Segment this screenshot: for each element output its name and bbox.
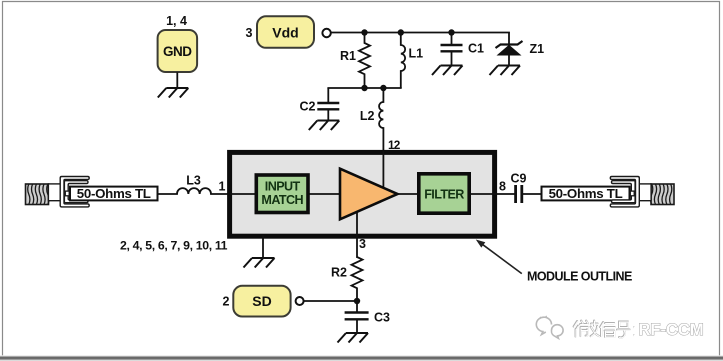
node junction dot R2/C3 — [354, 298, 360, 304]
wire pin 8 to C9 — [495, 193, 514, 195]
svg-text:L3: L3 — [186, 174, 201, 188]
wire pin 3 from amplifier down — [356, 212, 358, 257]
svg-text:FILTER: FILTER — [424, 187, 464, 201]
ground chassis under Z1 — [490, 66, 521, 76]
capacitor C9 — [516, 185, 522, 203]
svg-text:50-Ohms TL: 50-Ohms TL — [77, 186, 151, 201]
ground chassis under GND box — [158, 88, 189, 98]
ground chassis under C2 — [309, 121, 340, 131]
svg-text:50-Ohms TL: 50-Ohms TL — [549, 186, 623, 201]
SD terminal box — [233, 286, 290, 317]
resistor R2 — [352, 257, 363, 301]
capacitor C3 — [345, 301, 369, 333]
wire FILTER to pin 8 — [471, 193, 495, 195]
svg-text:R1: R1 — [340, 49, 356, 63]
Vdd terminal box — [257, 16, 314, 48]
wire module input to INPUT MATCH — [231, 193, 255, 195]
bottom shadow bar — [0, 355, 723, 361]
zener diode Z1 — [496, 33, 523, 66]
svg-text:C1: C1 — [468, 42, 484, 56]
ground chassis under C3 — [338, 333, 369, 343]
svg-text:8: 8 — [499, 180, 506, 194]
svg-text:1, 4: 1, 4 — [166, 14, 187, 28]
wire C9 to right TL — [523, 193, 541, 195]
svg-text:R2: R2 — [331, 266, 347, 280]
svg-text:Z1: Z1 — [530, 42, 545, 56]
svg-text:RF-CCM: RF-CCM — [639, 321, 704, 339]
ground chassis under module — [244, 258, 275, 268]
svg-text:GND: GND — [163, 44, 192, 59]
wire module ground stub — [262, 236, 264, 258]
op-amp amplifier triangle — [340, 169, 398, 220]
INPUT MATCH block — [256, 175, 308, 213]
left SMA connector — [26, 177, 90, 207]
wire amplifier to FILTER — [398, 193, 418, 195]
svg-text:Vdd: Vdd — [272, 25, 298, 41]
svg-text:MODULE OUTLINE: MODULE OUTLINE — [527, 270, 632, 284]
svg-text:C9: C9 — [511, 172, 527, 186]
svg-text:SD: SD — [252, 293, 271, 309]
50-Ohms TL right box — [542, 187, 630, 201]
capacitor C2 — [317, 88, 339, 121]
svg-text:C3: C3 — [374, 311, 390, 325]
module outline block — [230, 152, 495, 236]
module outline callout arrow — [483, 245, 522, 274]
wire pin 12 into module — [382, 152, 384, 190]
svg-text:L1: L1 — [409, 47, 424, 61]
watermark wechat logo — [536, 316, 563, 338]
Vdd terminal circle — [322, 29, 330, 37]
wire GND stem — [176, 72, 178, 88]
SD terminal circle — [296, 297, 304, 305]
svg-text:MATCH: MATCH — [261, 193, 303, 207]
svg-text:C2: C2 — [300, 100, 316, 114]
wire SD to R2 node — [304, 300, 357, 302]
svg-text:1: 1 — [219, 180, 226, 194]
svg-text:2: 2 — [223, 295, 230, 309]
inductor L1 — [401, 33, 405, 89]
inductor L3 — [177, 188, 211, 194]
svg-text:12: 12 — [388, 138, 401, 152]
svg-text:3: 3 — [246, 26, 253, 40]
watermark text 微信号: RF-CCM — [574, 321, 635, 338]
svg-text:2, 4, 5, 6, 7, 9, 10, 11: 2, 4, 5, 6, 7, 9, 10, 11 — [120, 238, 228, 252]
wire lower rail R1/L1/L2 — [328, 87, 401, 89]
wire input signal line — [158, 193, 178, 195]
FILTER block — [419, 174, 469, 213]
50-Ohms TL left box — [70, 187, 158, 201]
wire INPUT MATCH to amplifier — [310, 193, 340, 195]
node junction dots on lower rail — [361, 85, 367, 91]
wire L3 to module pin 1 — [211, 193, 233, 195]
inductor L2 — [379, 88, 383, 188]
svg-text:L2: L2 — [360, 109, 375, 123]
node junction dots on Vdd rail — [361, 29, 367, 35]
svg-text:3: 3 — [359, 237, 366, 251]
capacitor C1 — [441, 33, 463, 66]
svg-text:INPUT: INPUT — [265, 179, 301, 193]
resistor R1 — [359, 33, 370, 89]
right SMA connector — [610, 177, 674, 207]
wire Vdd rail — [331, 32, 509, 34]
GND terminal box — [158, 30, 198, 72]
ground chassis under C1 — [432, 66, 463, 76]
